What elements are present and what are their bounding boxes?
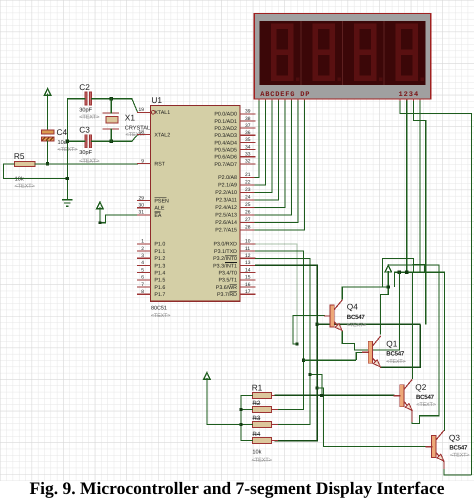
svg-text:C4: C4 — [57, 127, 68, 137]
svg-text:P3.7/RD: P3.7/RD — [217, 292, 237, 298]
wire display digit4 lane — [419, 101, 421, 272]
wire P2.5 to display segment F — [255, 101, 292, 215]
wire display digit2 lane — [406, 101, 408, 272]
svg-text:P3.0/RXD: P3.0/RXD — [213, 242, 237, 248]
svg-text:P2.6/A14: P2.6/A14 — [215, 220, 237, 226]
svg-text:14: 14 — [245, 267, 251, 273]
power VCC1 — [44, 89, 50, 130]
svg-text:R4: R4 — [252, 431, 260, 438]
display digit 2 segments — [312, 23, 341, 81]
display digit cell separators — [301, 21, 384, 85]
svg-text:P1.2: P1.2 — [154, 256, 165, 262]
svg-text:P1.1: P1.1 — [154, 249, 165, 255]
svg-text:XTAL1: XTAL1 — [154, 110, 170, 116]
svg-text:25: 25 — [245, 202, 251, 208]
svg-text:22: 22 — [245, 180, 251, 186]
svg-text:33: 33 — [245, 152, 251, 158]
svg-text:38: 38 — [245, 116, 251, 122]
svg-text:Fig. 9. Microcontroller and 7-: Fig. 9. Microcontroller and 7-segment Di… — [29, 478, 444, 498]
svg-text:4: 4 — [141, 260, 144, 266]
svg-text:11: 11 — [245, 246, 250, 252]
caption — [29, 478, 444, 498]
svg-text:9: 9 — [141, 158, 144, 164]
display digit 1 segments — [271, 23, 300, 81]
resistor R4 — [247, 431, 278, 444]
display digit 4 segments — [395, 23, 424, 81]
svg-text:ALE: ALE — [154, 206, 164, 212]
svg-text:U1: U1 — [151, 95, 162, 105]
transistor Q2 emitter pin extension — [411, 410, 413, 422]
transistor Q3 — [426, 430, 469, 461]
wire P3.3 lane (thick) — [255, 265, 317, 441]
svg-text:P3.6/WR: P3.6/WR — [216, 285, 237, 291]
wire display digit1 lane — [400, 101, 471, 475]
wire X1 top — [110, 99, 112, 113]
wire C2 left — [67, 98, 85, 100]
svg-text:P3.4/T0: P3.4/T0 — [218, 271, 237, 277]
svg-text:26: 26 — [245, 210, 251, 216]
capacitor C3 — [79, 125, 99, 165]
svg-text:21: 21 — [245, 172, 251, 178]
transistor Q1 — [363, 336, 406, 367]
svg-text:8: 8 — [141, 289, 144, 295]
svg-text:<TEXT>: <TEXT> — [417, 402, 436, 408]
wire C4 to RST net — [47, 141, 49, 164]
wire P3.1 lane — [255, 251, 304, 410]
svg-text:29: 29 — [139, 195, 145, 201]
svg-text:18: 18 — [139, 129, 145, 135]
svg-text:P0.6/AD6: P0.6/AD6 — [214, 155, 237, 161]
capacitor C4 — [41, 127, 77, 153]
display pin stubs — [259, 99, 420, 102]
capacitor C2 — [79, 82, 99, 120]
U1 left pin numbers — [139, 107, 145, 295]
svg-text:BC547: BC547 — [386, 350, 405, 357]
U1 left pin names — [154, 110, 170, 298]
svg-text:P1.7: P1.7 — [154, 292, 165, 298]
svg-text:CRYSTAL: CRYSTAL — [125, 126, 150, 132]
wire R5 left loop to ground rail — [4, 164, 68, 179]
display segment labels ABCDEFG DP — [260, 91, 310, 99]
svg-text:10: 10 — [245, 239, 251, 245]
U1 right pin names — [213, 112, 237, 298]
wire R5 right to RST pin — [35, 163, 138, 165]
junction P3.3 thick tee — [316, 323, 319, 326]
power VCC4 (resistor rail) — [204, 373, 241, 425]
wire P2.6 to display segment G — [255, 101, 298, 222]
svg-text:35: 35 — [245, 137, 251, 143]
junction C2/X1 — [110, 97, 113, 100]
7-segment display module — [254, 14, 431, 100]
svg-text:R1: R1 — [252, 383, 263, 393]
svg-text:R3: R3 — [252, 415, 260, 422]
svg-text:P0.2/AD2: P0.2/AD2 — [214, 126, 237, 132]
svg-text:P3.2/INT0: P3.2/INT0 — [213, 256, 237, 262]
wire Q3 collector riser — [443, 272, 445, 430]
svg-text:P0.3/AD3: P0.3/AD3 — [214, 133, 237, 139]
svg-text:P0.0/AD0: P0.0/AD0 — [214, 112, 237, 118]
wire P3.2 lane — [255, 258, 310, 424]
svg-text:P0.4/AD4: P0.4/AD4 — [214, 140, 237, 146]
crystal X1 — [103, 113, 150, 139]
junction rail/digit2 — [405, 271, 408, 274]
wire C3 right to XTAL2 — [92, 135, 138, 142]
wire P2.2 to display segment C — [255, 101, 272, 192]
svg-text:PSEN: PSEN — [154, 198, 169, 204]
wire C3 left — [67, 140, 85, 142]
svg-text:RST: RST — [154, 162, 165, 168]
svg-text:1: 1 — [141, 239, 144, 245]
power VCC2 (EA) — [97, 202, 103, 223]
svg-text:P2.7/A15: P2.7/A15 — [215, 228, 237, 234]
U1 right pin numbers — [245, 109, 251, 295]
svg-text:R2: R2 — [252, 400, 260, 407]
wire cluster branch A — [382, 259, 413, 287]
svg-text:10u: 10u — [58, 140, 67, 146]
svg-text:BC547: BC547 — [416, 394, 435, 401]
junction P3.1/Q1 base — [302, 359, 305, 362]
svg-text:P3.1/TXD: P3.1/TXD — [214, 249, 237, 255]
junction P3.0/Q4 base — [295, 342, 298, 345]
svg-text:C2: C2 — [79, 82, 90, 92]
svg-text:3: 3 — [141, 253, 144, 259]
wire display digit3 lane — [414, 101, 426, 324]
svg-text:30pF: 30pF — [79, 150, 92, 156]
wire P2.3 to display segment D — [255, 101, 279, 200]
wire P2.7 to display segment DP — [255, 101, 305, 230]
svg-text:31: 31 — [139, 210, 145, 216]
svg-text:P1.5: P1.5 — [154, 278, 165, 284]
wire Q4 emitter path — [342, 272, 399, 350]
svg-text:P2.1/A9: P2.1/A9 — [218, 183, 237, 189]
svg-text:P3.5/T1: P3.5/T1 — [218, 278, 237, 284]
svg-text:6: 6 — [141, 275, 144, 281]
wire Q1 emitter branch — [381, 324, 421, 367]
junction VCC3 — [387, 286, 390, 289]
svg-text:<TEXT>: <TEXT> — [386, 359, 405, 365]
junction rail/C3 — [66, 140, 69, 143]
svg-text:XTAL2: XTAL2 — [154, 133, 170, 139]
wire Q4 base loop — [293, 316, 325, 345]
svg-text:P1.4: P1.4 — [154, 271, 165, 277]
wire collector rail Q4 — [342, 287, 388, 299]
junction C4/RST — [46, 162, 49, 165]
resistor R2 — [247, 400, 278, 413]
svg-text:<TEXT>: <TEXT> — [252, 458, 272, 464]
wire thick branch to digit lane — [317, 323, 420, 325]
svg-text:<TEXT>: <TEXT> — [79, 114, 99, 120]
svg-text:P0.7/AD7: P0.7/AD7 — [214, 162, 237, 168]
U1 right pin stubs — [240, 114, 255, 294]
svg-text:P0.1/AD1: P0.1/AD1 — [214, 119, 237, 125]
svg-text:19: 19 — [139, 107, 145, 113]
wire P2.1 to display segment B — [255, 101, 266, 185]
crystal pin stubs — [110, 107, 112, 134]
wire Q2 emitter riser — [388, 265, 439, 424]
junction rail/Q4 emitter riser — [398, 271, 401, 274]
svg-text:32: 32 — [245, 159, 251, 165]
wire cluster branch B — [412, 265, 424, 273]
wire collector rail Q1 — [381, 295, 389, 335]
wire Q3 emitter to digit1 lane — [444, 462, 471, 475]
svg-text:P2.3/A11: P2.3/A11 — [216, 198, 237, 204]
svg-text:23: 23 — [245, 187, 251, 193]
svg-text:<TEXT>: <TEXT> — [79, 159, 99, 165]
wire left rail to ground — [66, 99, 68, 200]
wire Q3 base feed — [317, 388, 427, 447]
wire collector upper rail — [394, 272, 444, 287]
svg-text:<TEXT>: <TEXT> — [151, 313, 170, 319]
ground — [63, 200, 72, 206]
XTAL1 pin circle — [151, 111, 155, 115]
wire P2.4 to display segment E — [255, 101, 285, 207]
svg-text:<TEXT>: <TEXT> — [347, 322, 366, 328]
svg-text:12: 12 — [245, 253, 251, 259]
svg-text:1234: 1234 — [399, 91, 420, 99]
U1 left pin stubs — [138, 112, 151, 294]
display digit labels 1234 — [399, 91, 420, 99]
svg-text:34: 34 — [245, 144, 251, 150]
junction C3/X1 — [110, 140, 113, 143]
svg-text:17: 17 — [245, 289, 251, 295]
svg-text:30: 30 — [139, 203, 145, 209]
wire VCC2 to EA pin — [100, 215, 138, 223]
transistor Q2 — [394, 380, 436, 411]
svg-text:P0.5/AD5: P0.5/AD5 — [214, 148, 237, 154]
svg-text:Q1: Q1 — [386, 338, 397, 348]
resistor value 10k — [252, 449, 272, 464]
wire X1 bottom — [110, 129, 112, 141]
svg-text:<TEXT>: <TEXT> — [15, 184, 35, 190]
wire C2 right to XTAL1 — [92, 99, 138, 113]
svg-text:30pF: 30pF — [79, 108, 92, 114]
svg-text:C3: C3 — [79, 125, 90, 135]
wire P3.2 jog to Q2 base net — [310, 374, 322, 395]
svg-text:EA: EA — [154, 213, 162, 219]
power VCC3 (transistor rail) — [385, 265, 391, 294]
resistor R5 — [14, 151, 35, 190]
junction P3.2 jog — [308, 373, 311, 376]
junction P3.3/Q3 base branch — [316, 386, 319, 389]
svg-text:P2.2/A10: P2.2/A10 — [215, 190, 237, 196]
op-amp U1 80C51 body — [151, 95, 240, 319]
transistor Q4 — [325, 300, 367, 331]
svg-text:BC547: BC547 — [449, 444, 468, 451]
svg-text:5: 5 — [141, 267, 144, 273]
wire P2.0 to display segment A — [255, 101, 259, 177]
svg-text:27: 27 — [245, 217, 251, 223]
svg-text:13: 13 — [245, 260, 251, 266]
svg-text:80C51: 80C51 — [151, 306, 167, 312]
svg-text:ABCDEFG DP: ABCDEFG DP — [260, 91, 310, 99]
svg-text:37: 37 — [245, 123, 251, 129]
svg-text:P1.3: P1.3 — [154, 263, 165, 269]
svg-text:28: 28 — [245, 225, 251, 231]
wire P3.0 to Q4 base (faint) — [255, 244, 297, 344]
svg-text:2: 2 — [141, 246, 144, 252]
svg-text:R5: R5 — [14, 151, 25, 161]
wire Q1 base feed — [304, 352, 364, 360]
svg-text:39: 39 — [245, 109, 251, 115]
junction rail R3 — [239, 423, 242, 426]
svg-text:16: 16 — [245, 282, 251, 288]
svg-text:P1.6: P1.6 — [154, 285, 165, 291]
svg-text:Q3: Q3 — [449, 433, 460, 443]
svg-text:Q2: Q2 — [415, 382, 426, 392]
wire Q2 collector riser — [411, 272, 413, 378]
svg-text:24: 24 — [245, 195, 251, 201]
wire R left rail — [241, 395, 253, 440]
resistor R3 — [247, 415, 278, 428]
svg-text:P3.3/INT1: P3.3/INT1 — [213, 263, 237, 269]
junction rail/R5 loop — [66, 177, 69, 180]
svg-text:P2.0/A8: P2.0/A8 — [218, 175, 237, 181]
wire R1 to Q2 base (thick) — [275, 394, 395, 396]
display digit 3 segments — [354, 23, 383, 81]
svg-text:15: 15 — [245, 275, 251, 281]
svg-text:BC547: BC547 — [347, 314, 366, 321]
svg-text:P1.0: P1.0 — [154, 242, 165, 248]
svg-text:P2.5/A13: P2.5/A13 — [215, 213, 237, 219]
svg-text:<TEXT>: <TEXT> — [450, 453, 469, 459]
svg-text:36: 36 — [245, 130, 251, 136]
svg-text:10k: 10k — [252, 449, 261, 456]
svg-text:P2.4/A12: P2.4/A12 — [215, 205, 237, 211]
svg-text:Q4: Q4 — [347, 302, 358, 312]
svg-text:7: 7 — [141, 282, 144, 288]
svg-text:X1: X1 — [125, 113, 136, 123]
resistor R1 — [247, 383, 278, 399]
junction rail R2 — [239, 408, 242, 411]
